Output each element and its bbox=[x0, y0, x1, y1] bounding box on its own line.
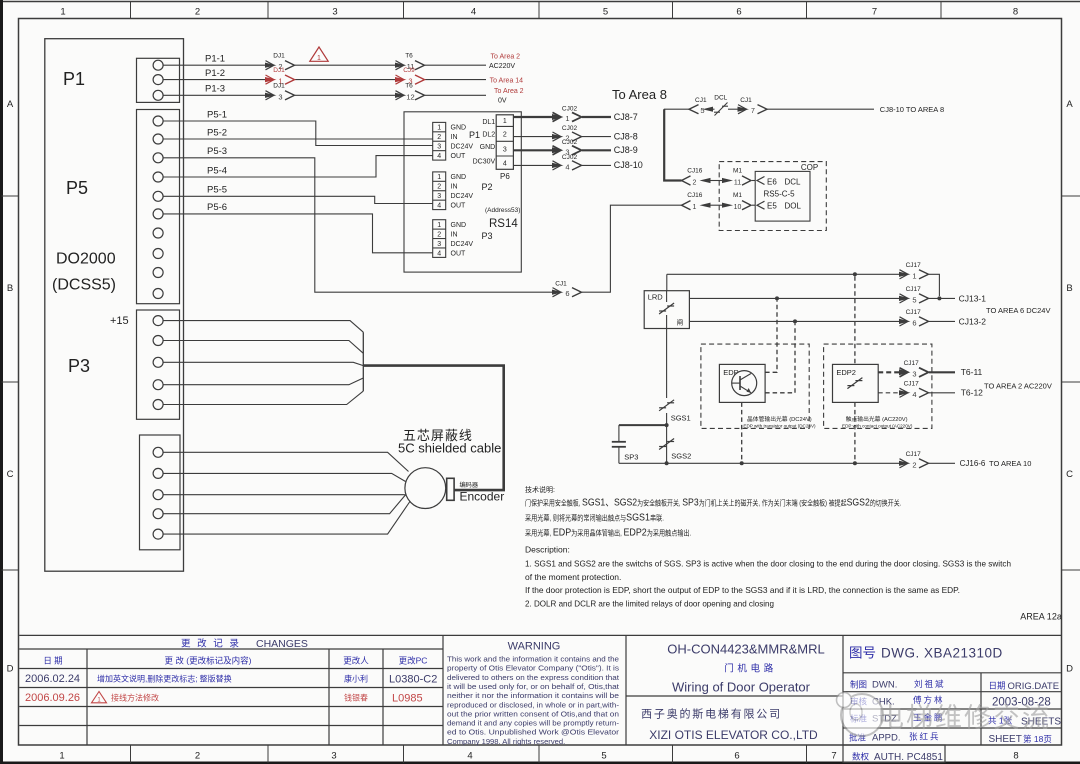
svg-text:C: C bbox=[1066, 469, 1073, 480]
svg-text:6: 6 bbox=[565, 289, 569, 298]
svg-text:2: 2 bbox=[195, 7, 200, 18]
svg-text:CJ8-10 TO AREA 8: CJ8-10 TO AREA 8 bbox=[880, 105, 944, 114]
svg-text:APPD.: APPD. bbox=[872, 733, 901, 744]
row SHEET no bbox=[989, 734, 1052, 745]
row AUTH bbox=[852, 752, 943, 764]
wire P1-2 to Area 14 bbox=[163, 67, 486, 86]
encoder connector plug bbox=[447, 478, 454, 500]
wire encoder cable 2 bbox=[163, 473, 406, 481]
svg-text:To Area 8: To Area 8 bbox=[612, 87, 667, 102]
svg-text:P6: P6 bbox=[500, 172, 510, 181]
svg-text:CHANGES: CHANGES bbox=[256, 638, 308, 650]
svg-text:2006.02.24: 2006.02.24 bbox=[25, 673, 80, 685]
svg-text:CJ16: CJ16 bbox=[687, 192, 703, 199]
svg-text:EDP2: EDP2 bbox=[836, 368, 856, 377]
wire EDP out1 dashed bbox=[765, 300, 777, 372]
svg-text:Company 1998. All rights rese: Company 1998. All rights reserved. bbox=[447, 737, 565, 746]
svg-text:11: 11 bbox=[734, 180, 741, 187]
svg-text:2. DOLR and DCLR are the limit: 2. DOLR and DCLR are the limited relays … bbox=[525, 599, 774, 609]
svg-text:P5: P5 bbox=[66, 178, 88, 198]
svg-text:P2: P2 bbox=[482, 182, 493, 192]
svg-text:2: 2 bbox=[195, 751, 200, 762]
svg-text:康小利: 康小利 bbox=[344, 674, 368, 684]
svg-text:neither it nor the informatio: neither it nor the information it contai… bbox=[447, 691, 619, 700]
svg-text:10: 10 bbox=[734, 204, 742, 211]
svg-text:DL1: DL1 bbox=[482, 119, 495, 126]
svg-text:CJ02: CJ02 bbox=[562, 106, 578, 113]
RS14 connector P6 (pins DL1 DL2 GND DC30V) bbox=[473, 115, 514, 181]
svg-text:(Address53): (Address53) bbox=[485, 207, 520, 214]
wire encoder cable 5 bbox=[163, 502, 410, 535]
svg-text:4: 4 bbox=[565, 162, 569, 171]
wire encoder cable 1 bbox=[163, 452, 409, 471]
node EDP2 bottom tap bbox=[853, 461, 857, 465]
svg-text:2: 2 bbox=[437, 231, 441, 238]
svg-text:2: 2 bbox=[437, 134, 441, 141]
svg-text:IN: IN bbox=[451, 184, 458, 191]
svg-text:Description:: Description: bbox=[525, 545, 570, 555]
svg-text:OH-CON4423&MMR&MRL: OH-CON4423&MMR&MRL bbox=[667, 642, 824, 657]
svg-text:1: 1 bbox=[437, 222, 441, 229]
svg-text:编码器: 编码器 bbox=[460, 481, 479, 489]
connector encoder-cable terminal block bbox=[140, 435, 181, 550]
svg-text:TO AREA 10: TO AREA 10 bbox=[989, 459, 1031, 468]
svg-text:IN: IN bbox=[451, 134, 458, 141]
svg-text:1: 1 bbox=[59, 751, 64, 762]
wire EDP2 bottom dashed bbox=[854, 402, 856, 461]
svg-text:P5-5: P5-5 bbox=[207, 185, 227, 196]
wire CJ8-10 TO AREA 8 with DCL contact bbox=[664, 95, 944, 116]
svg-text:DCL: DCL bbox=[785, 177, 802, 186]
row STDZ bbox=[850, 713, 945, 725]
svg-text:0V: 0V bbox=[498, 97, 507, 104]
svg-text:5: 5 bbox=[603, 7, 608, 18]
svg-text:1: 1 bbox=[565, 114, 569, 123]
wire encoder cable 4 bbox=[163, 495, 406, 514]
svg-text:3: 3 bbox=[503, 146, 507, 153]
svg-text:8: 8 bbox=[1013, 7, 1018, 18]
svg-text:DC24V: DC24V bbox=[451, 241, 474, 248]
svg-text:8: 8 bbox=[1013, 751, 1018, 762]
svg-text:RS5-C-5: RS5-C-5 bbox=[764, 190, 796, 199]
wire P6 pin1 via CJ02-1 to CJ8-7 bbox=[513, 106, 637, 124]
node EDP bottom tap bbox=[740, 461, 744, 465]
svg-text:delivered to others on the exp: delivered to others on the express condi… bbox=[447, 673, 620, 682]
svg-text:张红兵: 张红兵 bbox=[909, 732, 941, 742]
svg-text:4: 4 bbox=[437, 202, 441, 209]
module RS5-C-5 box bbox=[755, 171, 810, 221]
svg-text:RS14: RS14 bbox=[489, 218, 518, 230]
svg-text:OUT: OUT bbox=[451, 153, 467, 160]
svg-text:P1-1: P1-1 bbox=[205, 54, 225, 65]
contact LRD NC bbox=[659, 303, 674, 314]
svg-text:GND: GND bbox=[480, 144, 496, 151]
module EDP box bbox=[719, 364, 765, 402]
svg-text:it will be used only for, or o: it will be used only for, or on behalf o… bbox=[447, 682, 620, 691]
svg-text:5: 5 bbox=[700, 106, 704, 115]
svg-text:3: 3 bbox=[331, 751, 336, 762]
svg-text:接线方法修改: 接线方法修改 bbox=[111, 693, 159, 703]
svg-text:CJ17: CJ17 bbox=[906, 262, 922, 269]
svg-text:CJ8-8: CJ8-8 bbox=[614, 131, 638, 141]
wire P6 pin3 via CJ02-3 to CJ8-9 bbox=[513, 139, 637, 157]
svg-text:3: 3 bbox=[437, 193, 441, 200]
svg-text:4: 4 bbox=[437, 153, 441, 160]
svg-text:demand it and any copies will: demand it and any copies will be promptl… bbox=[447, 719, 619, 728]
svg-text:XIZI OTIS ELEVATOR CO.,LTD: XIZI OTIS ELEVATOR CO.,LTD bbox=[649, 728, 818, 742]
node cable bundle bus bbox=[362, 332, 364, 391]
svg-text:This work and the information: This work and the information it contain… bbox=[447, 655, 619, 664]
svg-text:To Area 2: To Area 2 bbox=[491, 54, 521, 61]
svg-text:SGS1: SGS1 bbox=[671, 414, 691, 423]
wire vertical link CJ1 line to CJ16-2 bbox=[664, 109, 681, 180]
svg-text:TO AREA 2 AC220V: TO AREA 2 AC220V bbox=[984, 382, 1052, 391]
svg-text:A: A bbox=[7, 99, 14, 110]
wire EDP2 top dashed bbox=[854, 276, 856, 364]
note warning paragraph bbox=[447, 655, 620, 746]
svg-text:out the prior written consent: out the prior written consent of Otis,an… bbox=[447, 709, 619, 718]
svg-text:2: 2 bbox=[912, 460, 916, 469]
svg-text:If the door protection is EDP,: If the door protection is EDP, short the… bbox=[525, 585, 960, 595]
svg-text:T6-12: T6-12 bbox=[961, 388, 983, 398]
svg-text:DC30V: DC30V bbox=[473, 158, 496, 165]
contact EDP2 NC bbox=[847, 378, 862, 389]
svg-text:T6-11: T6-11 bbox=[961, 367, 983, 377]
svg-text:5: 5 bbox=[912, 295, 916, 304]
label To Area 2 / AC220V bbox=[489, 54, 520, 71]
svg-text:数权: 数权 bbox=[852, 752, 870, 762]
svg-text:CJ1: CJ1 bbox=[555, 281, 567, 288]
svg-text:AREA 12a: AREA 12a bbox=[1020, 612, 1062, 622]
COP dashed box bbox=[719, 162, 826, 231]
svg-text:CJ9: CJ9 bbox=[403, 67, 415, 74]
svg-text:钱银春: 钱银春 bbox=[344, 693, 368, 703]
wire bottom line CJ17-2 to area 10 bbox=[619, 451, 1031, 470]
svg-text:To Area 2: To Area 2 bbox=[494, 88, 524, 95]
svg-text:CJ8-7: CJ8-7 bbox=[614, 112, 638, 122]
row ORIG.DATE bbox=[989, 681, 1060, 693]
svg-text:M1: M1 bbox=[733, 168, 742, 175]
node EDP out1 tap bbox=[775, 296, 779, 300]
svg-text:4: 4 bbox=[437, 250, 441, 257]
module EDP2 box bbox=[833, 364, 879, 402]
svg-text:技术说明:: 技术说明: bbox=[525, 485, 555, 494]
svg-text:LRD: LRD bbox=[648, 293, 664, 302]
contact SGS1 bbox=[659, 400, 691, 423]
wire EDP2 out CJ17-3 to T6-11 bbox=[878, 360, 982, 379]
svg-text:reproduced or disclosed, in wh: reproduced or disclosed, in whole or in … bbox=[447, 700, 619, 709]
svg-text:CJ17: CJ17 bbox=[904, 380, 920, 387]
svg-text:AUTH. PC4851: AUTH. PC4851 bbox=[874, 752, 943, 763]
svg-text:更改PC: 更改PC bbox=[399, 656, 428, 666]
node SP3 tap bbox=[665, 423, 669, 427]
RS14 connector group P3 bbox=[433, 220, 493, 258]
svg-text:+15: +15 bbox=[110, 315, 129, 327]
svg-text:第 18页: 第 18页 bbox=[1023, 734, 1052, 744]
svg-text:CJ13-1: CJ13-1 bbox=[959, 294, 987, 304]
svg-text:DJ1: DJ1 bbox=[273, 83, 285, 90]
wire encoder cable 3 bbox=[163, 494, 405, 496]
wire P3 pin4 into cable bundle bbox=[163, 378, 363, 385]
wire P3 pin5 into cable bundle bbox=[163, 391, 363, 404]
svg-text:T6: T6 bbox=[405, 83, 413, 90]
svg-text:CJ1: CJ1 bbox=[695, 97, 707, 104]
svg-text:更改人: 更改人 bbox=[343, 656, 369, 666]
label To Area 2 / 0V bbox=[494, 88, 524, 104]
svg-text:CJ16-6: CJ16-6 bbox=[960, 459, 986, 468]
svg-text:1: 1 bbox=[317, 55, 321, 62]
svg-text:4: 4 bbox=[467, 751, 472, 762]
svg-text:CJ02: CJ02 bbox=[562, 125, 578, 132]
svg-text:CJ1: CJ1 bbox=[740, 97, 752, 104]
svg-text:更 改 记 录: 更 改 记 录 bbox=[181, 638, 241, 650]
svg-text:CJ8-10: CJ8-10 bbox=[614, 160, 643, 170]
svg-text:日期: 日期 bbox=[989, 681, 1006, 691]
wire shielded cable run to encoder bbox=[363, 366, 503, 491]
svg-text:2: 2 bbox=[503, 132, 507, 139]
node junction top line EDP2 column bbox=[853, 272, 857, 276]
row change 2006.09.26 (red) bbox=[25, 692, 423, 705]
svg-text:E5: E5 bbox=[767, 202, 777, 211]
wire EDP out2 dashed bbox=[765, 323, 795, 392]
wire P5-2 to RS14 P1 IN bbox=[163, 127, 433, 139]
svg-text:P5-1: P5-1 bbox=[207, 109, 227, 120]
svg-text:2: 2 bbox=[437, 184, 441, 191]
svg-text:闸: 闸 bbox=[677, 319, 684, 327]
svg-text:(DCSS5): (DCSS5) bbox=[52, 277, 116, 294]
svg-text:Wiring of Door Operator: Wiring of Door Operator bbox=[672, 680, 811, 695]
svg-text:2006.09.26: 2006.09.26 bbox=[25, 692, 80, 704]
svg-text:制图: 制图 bbox=[850, 680, 867, 690]
svg-text:P5-3: P5-3 bbox=[207, 146, 227, 157]
svg-text:IN: IN bbox=[451, 231, 458, 238]
svg-text:OUT: OUT bbox=[451, 202, 467, 209]
svg-text:of the moment protection.: of the moment protection. bbox=[525, 572, 621, 582]
svg-text:3: 3 bbox=[332, 7, 337, 18]
svg-text:CJ17: CJ17 bbox=[904, 360, 920, 367]
svg-text:7: 7 bbox=[751, 108, 755, 115]
wire CJ16-1 to COP M1-10 E5 DOL bbox=[682, 192, 765, 211]
RS14 connector group P1 (pins GND IN DC24V OUT) bbox=[433, 122, 480, 160]
svg-text:DJ1: DJ1 bbox=[273, 67, 285, 74]
svg-text:L0985: L0985 bbox=[392, 693, 423, 705]
contact SGS2 bbox=[659, 439, 691, 461]
svg-text:SGS2: SGS2 bbox=[671, 452, 691, 461]
svg-text:1: 1 bbox=[437, 174, 441, 181]
svg-text:DWG. XBA21310D: DWG. XBA21310D bbox=[881, 646, 1003, 661]
transistor symbol in EDP bbox=[732, 371, 757, 396]
module RS14 (Address53) box bbox=[404, 112, 521, 272]
wire LRD internal vertical bbox=[666, 291, 668, 302]
svg-text:C: C bbox=[7, 469, 14, 480]
row CHK bbox=[850, 695, 945, 708]
wire P1-1 to Area 2 AC220V bbox=[163, 53, 486, 72]
wire LRD out CJ17-6 to CJ13-2 bbox=[689, 309, 986, 328]
EDP2 dashed enclosure bbox=[824, 344, 932, 428]
wire CJ16-2 to COP M1-11 E6 DCL bbox=[682, 168, 765, 187]
wire P5-3 long run to CJ1-6 bbox=[163, 146, 682, 298]
svg-text:SHEET: SHEET bbox=[989, 734, 1022, 745]
label 图号 DWG. XBA21310D bbox=[849, 646, 1003, 661]
row SHEETS bbox=[988, 716, 1061, 728]
svg-text:7: 7 bbox=[872, 7, 877, 18]
wire P5-5 to RS14 P2 OUT bbox=[163, 185, 433, 204]
svg-text:3: 3 bbox=[437, 144, 441, 151]
svg-text:西子奥的斯电梯有限公司: 西子奥的斯电梯有限公司 bbox=[641, 707, 782, 721]
svg-text:EDP: EDP bbox=[723, 368, 738, 377]
svg-text:6: 6 bbox=[734, 751, 739, 762]
wire P3 pin1 into cable bundle bbox=[163, 321, 363, 333]
svg-text:AC220V: AC220V bbox=[489, 63, 515, 70]
svg-text:GND: GND bbox=[451, 174, 467, 181]
svg-text:T6: T6 bbox=[405, 53, 413, 60]
wire P1-3 to Area 2 0V bbox=[163, 83, 486, 102]
wire EDP2 out CJ17-4 to T6-12 bbox=[878, 380, 983, 399]
wire P5-4 to RS14 P1 OUT bbox=[163, 156, 433, 177]
note technical description bbox=[525, 485, 1011, 609]
wire P3 pin3 into cable bundle bbox=[163, 362, 363, 365]
RS14 connector group P2 bbox=[433, 172, 493, 210]
connector P5 terminal block bbox=[137, 110, 180, 304]
encoder M1 circle bbox=[405, 468, 446, 509]
svg-text:4: 4 bbox=[912, 390, 916, 399]
svg-text:COP: COP bbox=[801, 163, 818, 172]
svg-text:M1: M1 bbox=[733, 192, 742, 199]
svg-text:3: 3 bbox=[437, 241, 441, 248]
svg-text:P1: P1 bbox=[63, 69, 85, 89]
svg-text:4: 4 bbox=[503, 160, 507, 167]
svg-text:1: 1 bbox=[693, 204, 697, 211]
svg-text:GND: GND bbox=[451, 125, 467, 132]
svg-text:EDP with contact output (AC220: EDP with contact output (AC220V) bbox=[842, 424, 913, 429]
svg-text:EDP with transistor output (DC: EDP with transistor output (DC24V) bbox=[743, 424, 816, 429]
svg-text:CJ17: CJ17 bbox=[906, 286, 922, 293]
svg-text:GND: GND bbox=[451, 222, 467, 229]
svg-text:DC24V: DC24V bbox=[451, 144, 474, 151]
wire LRD out CJ17-5 to CJ13-1 bbox=[689, 286, 986, 305]
svg-text:DJ1: DJ1 bbox=[273, 53, 285, 60]
svg-text:1: 1 bbox=[912, 271, 916, 280]
svg-text:P5-4: P5-4 bbox=[207, 165, 227, 176]
svg-text:E6: E6 bbox=[767, 177, 777, 186]
svg-text:L0380-C2: L0380-C2 bbox=[389, 674, 437, 686]
svg-text:P1: P1 bbox=[469, 130, 480, 140]
node EDP out2 tap bbox=[793, 319, 797, 323]
svg-text:DCL: DCL bbox=[714, 95, 727, 102]
svg-text:12: 12 bbox=[406, 92, 414, 101]
svg-text:P3: P3 bbox=[482, 231, 493, 241]
watermark logo circle bbox=[837, 693, 884, 737]
title block grid bbox=[19, 635, 1061, 762]
svg-text:ed to Otis. Unpublished: ed to Otis. Unpublished Work @Otis Eleva… bbox=[447, 728, 620, 737]
svg-text:电梯维修交流: 电梯维修交流 bbox=[877, 703, 1051, 733]
row APPD bbox=[849, 732, 941, 744]
svg-text:A: A bbox=[1066, 99, 1073, 110]
row DWN bbox=[850, 679, 946, 691]
connector P1 terminal block bbox=[137, 58, 180, 102]
svg-text:P1-2: P1-2 bbox=[205, 68, 225, 79]
svg-text:3: 3 bbox=[278, 92, 282, 101]
svg-text:3: 3 bbox=[912, 369, 916, 378]
wire P5-6 to RS14 P3 OUT bbox=[163, 202, 433, 253]
svg-text:5C shielded cable: 5C shielded cable bbox=[398, 441, 501, 456]
svg-text:OUT: OUT bbox=[451, 250, 467, 257]
svg-text:CJ16: CJ16 bbox=[687, 168, 703, 175]
svg-text:property of Otis Elevator Com: property of Otis Elevator Company ("Otis… bbox=[447, 664, 619, 673]
svg-text:1: 1 bbox=[60, 7, 65, 18]
svg-text:CJ17: CJ17 bbox=[906, 309, 922, 316]
wire SGS column vertical bbox=[666, 329, 668, 399]
svg-text:B: B bbox=[1066, 283, 1072, 294]
svg-text:4: 4 bbox=[471, 7, 476, 18]
svg-text:P5-6: P5-6 bbox=[207, 202, 227, 213]
node SGS2 bottom bbox=[665, 461, 669, 465]
svg-text:CJ17: CJ17 bbox=[906, 451, 922, 458]
wire LRD feed vertical bbox=[666, 274, 668, 291]
svg-text:刘祖斌: 刘祖斌 bbox=[914, 679, 946, 689]
svg-text:2: 2 bbox=[693, 180, 697, 187]
wire P3 pin2 into cable bundle bbox=[163, 341, 363, 354]
wire P6 pin2 via CJ02-2 to CJ8-8 bbox=[513, 125, 637, 143]
svg-text:更 改 (更改标记及内容): 更 改 (更改标记及内容) bbox=[165, 656, 252, 666]
svg-text:DO2000: DO2000 bbox=[56, 251, 116, 268]
svg-text:增加英文说明,删除更改标志; 整版替换: 增加英文说明,删除更改标志; 整版替换 bbox=[97, 674, 232, 684]
svg-text:P5-2: P5-2 bbox=[207, 127, 227, 138]
svg-text:7: 7 bbox=[831, 751, 836, 762]
wire P6 pin4 via CJ02-4 to CJ8-10 bbox=[513, 154, 642, 172]
wire P5-1 to RS14 P1 DC24V bbox=[163, 109, 433, 145]
svg-text:B: B bbox=[7, 283, 13, 294]
svg-text:晶体管输出光幕 (DC24V): 晶体管输出光幕 (DC24V) bbox=[747, 415, 812, 423]
controller DO2000 (DCSS5) outline box bbox=[45, 39, 184, 572]
svg-text:日 期: 日 期 bbox=[43, 656, 62, 666]
svg-text:CJ02: CJ02 bbox=[562, 139, 578, 146]
svg-text:1: 1 bbox=[437, 125, 441, 132]
svg-text:1. SGS1 and SGS2 are the switc: 1. SGS1 and SGS2 are the switchs of SGS.… bbox=[525, 559, 1011, 569]
connector P3 terminal block bbox=[137, 310, 180, 419]
svg-text:门 机 电 路: 门 机 电 路 bbox=[724, 663, 773, 675]
svg-text:DC24V: DC24V bbox=[451, 193, 474, 200]
svg-text:D: D bbox=[7, 664, 14, 675]
svg-text:图号: 图号 bbox=[849, 646, 876, 661]
svg-text:DWN.: DWN. bbox=[872, 680, 897, 691]
svg-text:D: D bbox=[1066, 664, 1073, 675]
svg-text:DL2: DL2 bbox=[482, 132, 495, 139]
svg-text:CJ8-9: CJ8-9 bbox=[614, 145, 638, 155]
svg-text:CJ13-2: CJ13-2 bbox=[959, 317, 987, 327]
svg-text:To Area 14: To Area 14 bbox=[490, 77, 524, 84]
svg-text:CJ02: CJ02 bbox=[562, 154, 578, 161]
revision warning triangle 1 (red) bbox=[310, 47, 328, 62]
svg-text:P3: P3 bbox=[68, 356, 90, 376]
wire top line to CJ17-1 bbox=[667, 262, 940, 296]
svg-text:SP3: SP3 bbox=[624, 453, 638, 462]
wire EDP bottom dashed bbox=[741, 402, 743, 461]
svg-text:5: 5 bbox=[601, 751, 606, 762]
svg-text:WARNING: WARNING bbox=[508, 641, 561, 653]
svg-text:6: 6 bbox=[912, 318, 916, 327]
capacitor SP3 bbox=[612, 425, 667, 463]
label 更改记录 CHANGES bbox=[181, 638, 308, 651]
svg-text:P1-3: P1-3 bbox=[205, 84, 225, 95]
svg-text:触点输出光幕 (AC220V): 触点输出光幕 (AC220V) bbox=[846, 415, 908, 423]
row change 2006.02.24 bbox=[25, 673, 437, 686]
relay LRD box bbox=[644, 291, 689, 329]
svg-text:Encoder: Encoder bbox=[460, 490, 505, 504]
svg-text:1: 1 bbox=[503, 118, 507, 125]
svg-text:6: 6 bbox=[736, 7, 741, 18]
svg-text:DOL: DOL bbox=[785, 202, 802, 211]
